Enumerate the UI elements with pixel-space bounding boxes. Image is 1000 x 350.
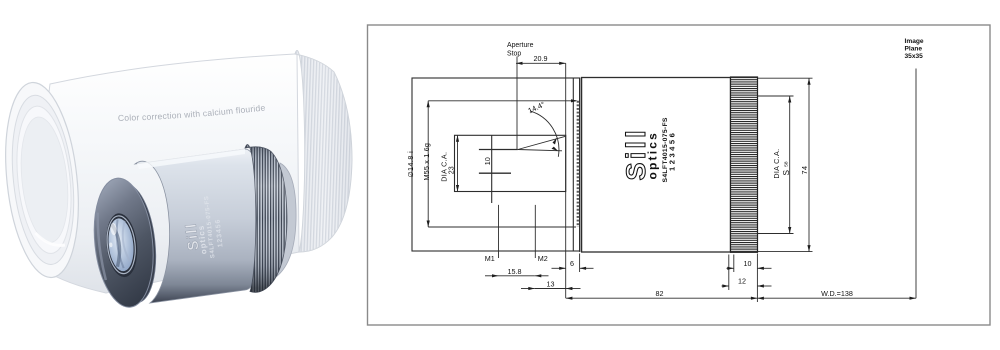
svg-text:12: 12	[738, 277, 746, 286]
M2 leader	[534, 205, 536, 258]
rear barrel rectangle	[412, 78, 580, 251]
82 arrows	[566, 297, 573, 300]
13 dim line	[521, 288, 535, 290]
svg-text:20.9: 20.9	[534, 54, 548, 63]
barrel inner step line	[572, 78, 574, 251]
main body rectangle	[582, 78, 731, 253]
big lens front face	[0, 79, 87, 281]
extension + dimension thin lines	[458, 63, 917, 302]
aperture stop vertical line	[516, 57, 518, 150]
CA arrows	[788, 96, 791, 103]
knurl top ext right	[758, 77, 813, 79]
angle ray axis	[518, 150, 562, 151]
arrowheads	[427, 62, 916, 300]
M55 thread dashed band	[577, 101, 579, 227]
svg-text:M1: M1	[485, 254, 495, 263]
WD dim line	[757, 297, 916, 299]
beam line upper	[479, 149, 518, 151]
10 arrows	[727, 267, 734, 270]
15.8 arrows	[492, 274, 499, 277]
small lens body top highlight	[137, 149, 245, 170]
right ext for 6	[579, 254, 581, 273]
knurl bottom ext right	[758, 251, 813, 253]
svg-text:Image: Image	[905, 38, 924, 45]
74 dim line	[808, 78, 810, 251]
small lens knurled ring	[245, 145, 287, 293]
10 dim line	[727, 267, 734, 269]
border frame	[368, 25, 991, 325]
svg-text:58: 58	[784, 161, 790, 167]
23 dim line inside box	[457, 135, 459, 191]
small lens engraved texts	[183, 195, 225, 258]
inner lens-cell box	[455, 135, 566, 191]
74 arrows	[807, 78, 810, 85]
small lens front flange	[88, 175, 159, 310]
20.9 dimension line	[516, 62, 566, 64]
svg-text:13: 13	[547, 280, 555, 289]
svg-text:6: 6	[570, 259, 574, 268]
lens surface line in box	[491, 135, 493, 203]
svg-text:82: 82	[656, 289, 664, 298]
svg-text:10: 10	[744, 259, 752, 268]
ext for 12 dim	[728, 255, 730, 291]
svg-text:M2: M2	[538, 254, 548, 263]
M55 extension line top	[428, 100, 576, 102]
svg-text:DIA C.A.: DIA C.A.	[772, 149, 781, 179]
ext for 10 dim	[733, 255, 735, 273]
svg-text:23: 23	[447, 166, 456, 174]
drawing texts	[408, 38, 924, 298]
svg-text:Aperture: Aperture	[507, 42, 534, 49]
svg-text:M55 x 1 6g: M55 x 1 6g	[422, 143, 431, 181]
13 arrows	[528, 287, 535, 290]
big lens knurled ring	[295, 51, 352, 252]
long extension line x=565.7	[565, 63, 567, 298]
svg-text:W.D.=138: W.D.=138	[821, 289, 853, 298]
big lens marketing text	[118, 109, 278, 121]
svg-text:35x35: 35x35	[905, 53, 924, 60]
M55 extension line bottom	[428, 226, 576, 228]
15.8 dim line	[485, 275, 499, 277]
svg-text:10: 10	[483, 157, 492, 165]
6 arrows	[559, 267, 566, 270]
small lens rear flange ring	[102, 182, 161, 305]
12 dim line	[722, 285, 729, 287]
svg-text:123456: 123456	[667, 131, 676, 171]
20.9 arrows	[516, 62, 523, 65]
svg-text:∅14.8 i: ∅14.8 i	[408, 151, 415, 178]
shared right ext x=757.4	[756, 254, 758, 303]
svg-text:74: 74	[800, 166, 809, 175]
svg-text:Stop: Stop	[507, 51, 521, 58]
svg-text:S: S	[782, 170, 791, 176]
WD arrows	[757, 297, 764, 300]
beam line lower	[479, 172, 511, 174]
82 dim line	[566, 297, 758, 299]
small lens body	[135, 149, 265, 303]
angle arc arrows	[553, 138, 557, 145]
big ghost lens body	[38, 54, 299, 293]
image plane line	[915, 69, 917, 299]
angle ray upper	[518, 136, 566, 149]
CA ext bottom right	[758, 233, 794, 235]
CA ext top right	[758, 95, 794, 97]
M1 leader	[498, 205, 500, 258]
CA dim line	[789, 96, 791, 234]
6 dim line	[552, 267, 566, 269]
svg-text:optics: optics	[646, 131, 660, 180]
12 arrows	[722, 284, 729, 287]
M55 dimension line	[427, 101, 429, 227]
angle arc	[530, 111, 559, 157]
svg-text:15.8: 15.8	[508, 267, 522, 276]
main body rear face double line	[579, 78, 581, 253]
small lens rear ring (behind knurl)	[272, 163, 296, 277]
knurled focus ring (drawing)	[731, 77, 758, 252]
23 dim arrows	[456, 135, 459, 142]
M55 dim arrows	[427, 101, 430, 108]
svg-text:Plane: Plane	[905, 46, 923, 53]
M55 thread leader arrow	[571, 99, 578, 102]
